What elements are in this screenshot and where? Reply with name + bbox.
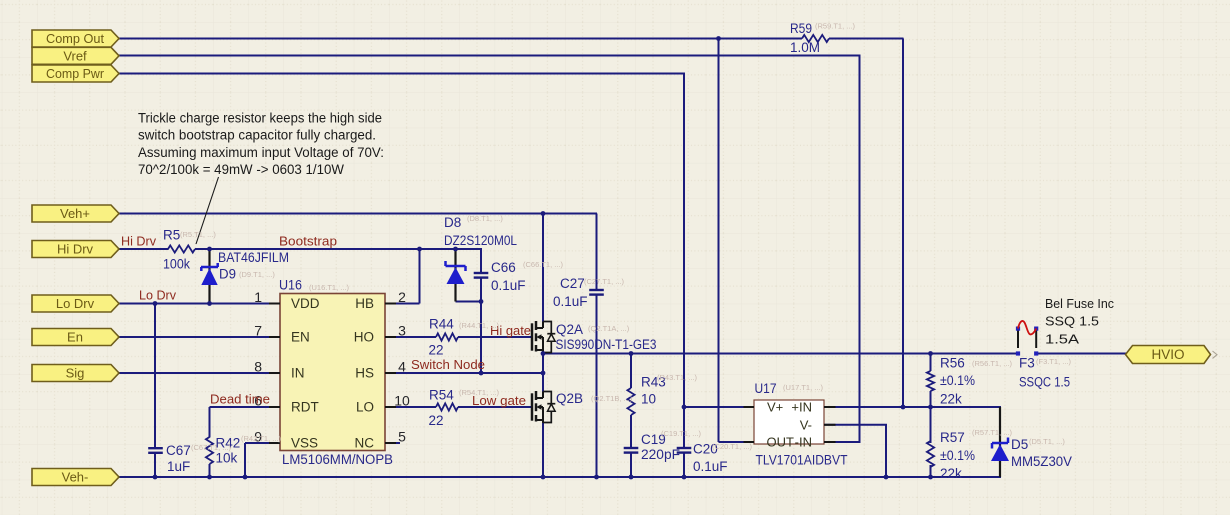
svg-text:70^2/100k = 49mW -> 0603 1/10W: 70^2/100k = 49mW -> 0603 1/10W xyxy=(138,162,344,177)
resistor R44 xyxy=(436,333,458,340)
svg-text:D8: D8 xyxy=(444,215,461,230)
wire Veh- rail (y477) xyxy=(119,476,1001,478)
svg-text:VDD: VDD xyxy=(291,296,320,311)
svg-text:Veh-: Veh- xyxy=(62,470,89,485)
wire Veh+ net (y213.5) xyxy=(119,213,597,215)
wire Hi gate (y337) xyxy=(385,336,436,338)
wire -IN stub (y442) xyxy=(824,441,861,443)
svg-text:F3: F3 xyxy=(1019,356,1035,371)
svg-text:OUT: OUT xyxy=(767,435,795,450)
svg-text:(C67.T1, ...): (C67.T1, ...) xyxy=(191,443,232,452)
svg-text:TLV1701AIDBVT: TLV1701AIDBVT xyxy=(756,453,848,468)
wire C27 branch (x596.5) xyxy=(596,214,598,291)
svg-text:1.5A: 1.5A xyxy=(1045,332,1079,347)
svg-text:1.0M: 1.0M xyxy=(790,40,820,55)
svg-text:7: 7 xyxy=(254,323,262,339)
svg-text:(R56.T1, ...): (R56.T1, ...) xyxy=(972,359,1013,368)
svg-text:10k: 10k xyxy=(216,451,238,466)
port Vref xyxy=(32,47,119,64)
wire HS switch node (y373) xyxy=(385,372,543,374)
port Veh+ xyxy=(32,205,119,222)
wire R42 branch (x209.5) xyxy=(209,407,211,438)
svg-text:Veh+: Veh+ xyxy=(60,206,90,221)
wire +IN net (y407) xyxy=(824,406,1001,408)
svg-text:Hi Drv: Hi Drv xyxy=(121,235,157,249)
wire R57 branch (x930.5) xyxy=(930,407,932,443)
svg-text:4: 4 xyxy=(398,359,406,375)
wire Q2A src - Q2B drain (x543) xyxy=(542,353,544,392)
wire R56 branch (x930.5) xyxy=(930,354,932,372)
wire HB riser (x419.5) xyxy=(419,249,421,304)
svg-text:±0.1%: ±0.1% xyxy=(940,373,975,388)
transistor Q2B xyxy=(531,393,534,420)
svg-text:SSQC 1.5: SSQC 1.5 xyxy=(1019,375,1070,390)
svg-text:R57: R57 xyxy=(940,430,965,445)
svg-text:1uF: 1uF xyxy=(167,459,190,474)
svg-text:Trickle charge resistor keeps: Trickle charge resistor keeps the high s… xyxy=(138,111,382,126)
svg-text:D9: D9 xyxy=(219,267,236,282)
resistor R5 xyxy=(168,245,195,252)
svg-text:IN: IN xyxy=(291,366,305,381)
wire Hi Drv / bootstrap (y249) xyxy=(119,248,169,250)
svg-text:R44: R44 xyxy=(429,317,454,332)
port Comp Pwr xyxy=(32,65,119,82)
wire R59 drop (x903) xyxy=(902,39,904,408)
comparator U17 TLV1701 xyxy=(754,400,824,444)
port Sig xyxy=(32,365,119,382)
svg-text:10: 10 xyxy=(641,392,656,407)
port Veh- xyxy=(32,469,119,486)
wire Q2A drain (x543) xyxy=(542,214,544,322)
svg-text:Comp Pwr: Comp Pwr xyxy=(46,66,105,81)
svg-text:SSQ 1.5: SSQ 1.5 xyxy=(1045,314,1099,329)
svg-text:Q2A: Q2A xyxy=(556,322,583,337)
svg-text:(C19.T1, ...): (C19.T1, ...) xyxy=(661,429,702,438)
svg-text:switch bootstrap capacitor ful: switch bootstrap capacitor fully charged… xyxy=(138,128,376,143)
wire En (y337) xyxy=(119,336,280,338)
svg-text:U17: U17 xyxy=(755,381,777,396)
svg-text:3: 3 xyxy=(398,323,406,339)
wire Q2B source (x543) xyxy=(542,423,544,478)
svg-text:Assuming maximum input Voltage: Assuming maximum input Voltage of 70V: xyxy=(138,145,384,160)
resistor R56 xyxy=(927,371,934,391)
svg-text:BAT46JFILM: BAT46JFILM xyxy=(218,250,289,265)
wire NC stub (y443) xyxy=(385,442,400,444)
svg-text:R56: R56 xyxy=(940,356,965,371)
svg-text:Q2B: Q2B xyxy=(556,391,583,406)
svg-text:(R59.T1, ...): (R59.T1, ...) xyxy=(815,22,856,31)
svg-text:(R43.T1, ...): (R43.T1, ...) xyxy=(657,373,698,382)
fuse F3 xyxy=(1017,329,1019,348)
svg-text:HVIO: HVIO xyxy=(1151,347,1184,362)
svg-text:En: En xyxy=(67,330,83,345)
svg-text:(F3.T1, ...): (F3.T1, ...) xyxy=(1036,357,1072,366)
svg-text:0.1uF: 0.1uF xyxy=(693,459,728,474)
svg-text:(C27.T1, ...): (C27.T1, ...) xyxy=(584,277,625,286)
svg-text:C27: C27 xyxy=(560,276,585,291)
resistor R59 xyxy=(802,35,829,42)
wire VSS (y443) xyxy=(245,442,280,444)
note leader line xyxy=(196,177,219,244)
diode D9 BAT46JFILM xyxy=(201,266,218,269)
svg-text:22k: 22k xyxy=(940,466,962,481)
svg-text:22k: 22k xyxy=(940,392,962,407)
wire Lo Drv (y303.5) xyxy=(119,303,280,305)
op-amp driver U16 LM5106 xyxy=(280,294,385,451)
resistor R42 xyxy=(206,437,213,464)
wire Comp Out net (y38.5) xyxy=(119,38,802,40)
diode D8 DZ2S120M0L xyxy=(446,265,466,268)
svg-text:22: 22 xyxy=(429,413,444,428)
svg-text:(Q2.T1A, ...): (Q2.T1A, ...) xyxy=(588,324,630,333)
svg-text:(Q2.T1B, ...): (Q2.T1B, ...) xyxy=(591,394,633,403)
wire V- drop (x886) xyxy=(885,425,887,477)
wire Comp Out drop (x718.5) xyxy=(718,39,720,443)
port Comp Out xyxy=(32,30,119,47)
svg-text:Hi Drv: Hi Drv xyxy=(57,242,94,257)
wire D8 branch (x455.5) xyxy=(454,249,456,302)
svg-text:V-: V- xyxy=(800,417,812,432)
svg-text:(D5.T1, ...): (D5.T1, ...) xyxy=(1029,437,1065,446)
svg-text:D5: D5 xyxy=(1011,437,1028,452)
wire VSS drop (x245) xyxy=(244,443,246,477)
svg-text:RDT: RDT xyxy=(291,400,319,415)
port Hi Drv xyxy=(32,241,119,258)
wire R43-C19 branch (x631) xyxy=(630,354,632,389)
wire Sig (y373) xyxy=(119,372,280,374)
svg-text:-IN: -IN xyxy=(795,435,812,450)
svg-text:(D8.T1, ...): (D8.T1, ...) xyxy=(467,214,503,223)
svg-text:R54: R54 xyxy=(429,388,454,403)
svg-text:VSS: VSS xyxy=(291,436,318,451)
svg-text:(D9.T1, ...): (D9.T1, ...) xyxy=(239,270,275,279)
svg-text:Bootstrap: Bootstrap xyxy=(279,235,337,249)
svg-text:Dead time: Dead time xyxy=(210,393,270,407)
svg-text:0.1uF: 0.1uF xyxy=(553,294,588,309)
svg-text:R5: R5 xyxy=(163,228,180,243)
svg-text:22: 22 xyxy=(429,343,444,358)
svg-text:Sig: Sig xyxy=(66,366,85,381)
svg-text:Comp Out: Comp Out xyxy=(46,31,104,46)
port HVIO xyxy=(1126,346,1211,364)
svg-text:C66: C66 xyxy=(491,260,516,275)
wire RDT (y407) xyxy=(210,406,281,408)
svg-text:10: 10 xyxy=(394,393,410,409)
svg-text:R59: R59 xyxy=(790,21,812,36)
svg-text:C67: C67 xyxy=(166,443,191,458)
svg-text:Switch Node: Switch Node xyxy=(411,358,485,372)
svg-text:Vref: Vref xyxy=(63,48,87,63)
svg-text:Lo Drv: Lo Drv xyxy=(139,289,177,303)
svg-text:2: 2 xyxy=(398,289,406,305)
svg-text:LM5106MM/NOPB: LM5106MM/NOPB xyxy=(282,452,393,467)
svg-text:V+: V+ xyxy=(767,400,783,415)
svg-text:HO: HO xyxy=(354,330,374,345)
svg-text:220pF: 220pF xyxy=(641,447,680,462)
svg-text:(U17.T1, ...): (U17.T1, ...) xyxy=(783,383,824,392)
svg-text:NC: NC xyxy=(355,436,375,451)
svg-text:(R44.T1, ...): (R44.T1, ...) xyxy=(459,321,500,330)
svg-text:MM5Z30V: MM5Z30V xyxy=(1011,454,1072,469)
diode D5 MM5Z30V xyxy=(992,442,1008,445)
wire D5 branch (x1000) xyxy=(999,407,1001,477)
wire OUT stub (y442) xyxy=(719,441,755,443)
svg-text:Lo Drv: Lo Drv xyxy=(56,296,95,311)
svg-text:±0.1%: ±0.1% xyxy=(940,448,975,463)
wire Low gate (y407) xyxy=(385,406,436,408)
wire D8 anode link (y301.5) xyxy=(456,301,482,303)
svg-text:(R5.T1, ...): (R5.T1, ...) xyxy=(180,230,216,239)
svg-text:+IN: +IN xyxy=(791,400,812,415)
svg-text:DZ2S120M0L: DZ2S120M0L xyxy=(444,233,517,248)
wire switch node out (y353.5) xyxy=(543,353,1017,355)
wire V- stub (y424.8) xyxy=(824,424,887,426)
wire HB pin2 (y303.5) xyxy=(385,303,420,305)
transistor Q2A xyxy=(531,323,534,350)
svg-text:8: 8 xyxy=(254,359,262,375)
svg-text:5: 5 xyxy=(398,429,406,445)
svg-text:Bel Fuse Inc: Bel Fuse Inc xyxy=(1045,296,1114,311)
wire C67 branch (x155) xyxy=(154,304,156,449)
svg-text:1: 1 xyxy=(254,289,262,305)
svg-text:0.1uF: 0.1uF xyxy=(491,278,526,293)
port En xyxy=(32,329,119,346)
resistor R54 xyxy=(436,403,458,410)
svg-text:(R54.T1, ...): (R54.T1, ...) xyxy=(459,388,500,397)
wire Vref drop (x859.5) xyxy=(859,56,861,443)
wire V+ stub (y407) xyxy=(684,406,754,408)
svg-text:(C20.T1, ...): (C20.T1, ...) xyxy=(712,442,753,451)
capacitor C19 xyxy=(624,447,639,449)
capacitor C27 xyxy=(589,289,604,291)
svg-text:100k: 100k xyxy=(163,257,190,272)
svg-text:HS: HS xyxy=(355,366,374,381)
wire D9 branch (x209.5) xyxy=(208,249,210,304)
svg-text:EN: EN xyxy=(291,330,310,345)
svg-text:(U16.T1, ...): (U16.T1, ...) xyxy=(309,283,350,292)
port Lo Drv xyxy=(32,295,119,312)
resistor R57 xyxy=(927,441,934,467)
svg-text:(R57.T1, ...): (R57.T1, ...) xyxy=(972,428,1013,437)
resistor R43 xyxy=(627,388,634,415)
wire Comp Pwr drop (x684) xyxy=(683,74,685,449)
svg-text:(C66.T1, ...): (C66.T1, ...) xyxy=(523,260,564,269)
svg-text:LO: LO xyxy=(356,400,374,415)
svg-text:(R42.T1, ...): (R42.T1, ...) xyxy=(241,434,282,443)
svg-text:U16: U16 xyxy=(279,278,302,293)
wire C66 branch (x481) xyxy=(480,249,482,273)
svg-text:HB: HB xyxy=(355,296,374,311)
wire Vref net (y55.5) xyxy=(119,55,861,57)
svg-text:SIS990DN-T1-GE3: SIS990DN-T1-GE3 xyxy=(556,337,657,352)
capacitor C20 xyxy=(677,447,692,449)
capacitor C66 xyxy=(474,272,489,274)
junction dots xyxy=(716,36,721,41)
wire Comp Pwr net (y73.5) xyxy=(119,73,685,75)
capacitor C67 xyxy=(148,447,163,449)
